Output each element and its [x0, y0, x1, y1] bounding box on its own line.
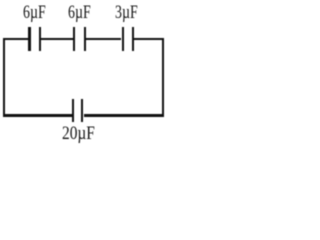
wire: bottom-left horizontal segment (left corner to C4 left plate): [3, 114, 72, 116]
capacitor C3 left plate: [122, 27, 124, 52]
wire: bottom-right horizontal segment (C4 right plate to right corner): [84, 114, 165, 116]
wire: left vertical side: [3, 38, 5, 117]
capacitor C4 right plate: [81, 99, 83, 122]
capacitor C3 right plate: [132, 27, 134, 52]
label: 20µF for C4: [62, 124, 95, 143]
label: 6µF for C1: [23, 3, 46, 22]
label: 6µF for C2: [68, 3, 91, 22]
capacitor C2 right plate: [84, 27, 86, 52]
wire: right vertical side: [162, 38, 164, 117]
label: 3µF for C3: [115, 3, 138, 22]
wire: top segment between C2 and C3: [86, 38, 122, 40]
wire: top-left horizontal segment (left corner to C1 left plate): [3, 38, 29, 40]
capacitor C2 left plate: [73, 27, 75, 52]
capacitor C4 left plate: [72, 99, 74, 122]
capacitor C1 left plate: [28, 27, 30, 52]
capacitor C1 right plate: [39, 27, 41, 52]
wire: top segment between C1 and C2: [41, 38, 73, 40]
wire: top-right horizontal segment (C3 right plate to right corner): [134, 38, 164, 40]
